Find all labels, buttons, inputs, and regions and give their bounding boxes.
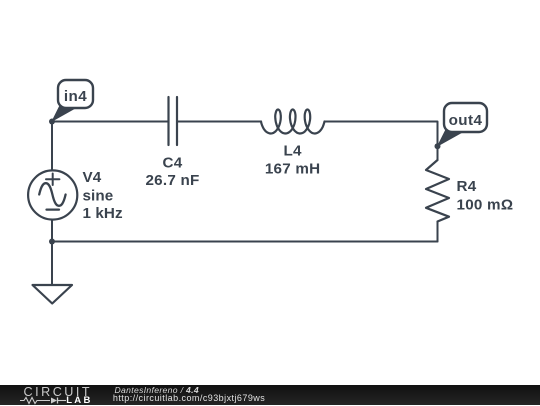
svg-text:V4: V4: [83, 169, 102, 186]
svg-text:sine: sine: [83, 187, 114, 204]
CircuitLab logo resistor-diode line and LAB: [20, 396, 95, 405]
voltage source V4 labels V4 / sine / 1 kHz: [83, 169, 123, 222]
CircuitLab logo word CIRCUIT: [24, 385, 93, 399]
voltage source V4 sine wave: [39, 183, 65, 206]
svg-text:100 mΩ: 100 mΩ: [457, 197, 514, 214]
svg-text:26.7 nF: 26.7 nF: [145, 172, 199, 189]
wire from inductor to top-right corner and down to node out4: [325, 122, 438, 161]
svg-text:in4: in4: [64, 88, 87, 105]
wire bottom rail: [52, 241, 438, 243]
wire from resistor bottom to bottom-right corner: [437, 222, 439, 242]
bottom-left junction dot: [49, 239, 55, 245]
node in4 callout box: [58, 80, 93, 108]
wire from V4 bottom to bottom rail: [51, 220, 53, 242]
wire from bottom rail down to ground: [51, 242, 53, 286]
svg-text:1 kHz: 1 kHz: [83, 205, 123, 222]
inductor L4 labels L4 / 167 mH: [265, 143, 321, 178]
svg-text:C4: C4: [163, 155, 183, 172]
svg-text:out4: out4: [449, 112, 483, 129]
node in4 junction dot: [49, 119, 55, 125]
credit line 2: [113, 393, 265, 403]
credit line 1: [115, 385, 199, 395]
node out4 callout tail: [438, 130, 464, 146]
voltage source V4 minus sign: [47, 209, 60, 211]
node out4 junction dot: [435, 143, 441, 149]
resistor R4 labels R4 / 100 mOhm: [457, 178, 514, 214]
voltage source V4 circle: [28, 170, 77, 219]
capacitor C4 labels C4 / 26.7 nF: [145, 155, 199, 190]
wire top segment from node in4 to capacitor left plate: [52, 121, 169, 123]
inductor L4: [261, 110, 325, 134]
ground symbol: [33, 285, 73, 304]
node in4 callout tail: [52, 107, 75, 122]
wire between capacitor and inductor: [177, 121, 261, 123]
svg-text:R4: R4: [457, 178, 477, 195]
svg-text:L4: L4: [283, 143, 302, 160]
wire from node in4 down to V4 top: [51, 122, 53, 171]
voltage source V4 plus sign: [46, 174, 59, 186]
capacitor C4: [169, 97, 178, 145]
resistor R4 zigzag: [426, 160, 449, 222]
footer black bar: [0, 385, 540, 406]
node out4 callout box: [444, 103, 487, 132]
svg-text:167 mH: 167 mH: [265, 161, 321, 178]
